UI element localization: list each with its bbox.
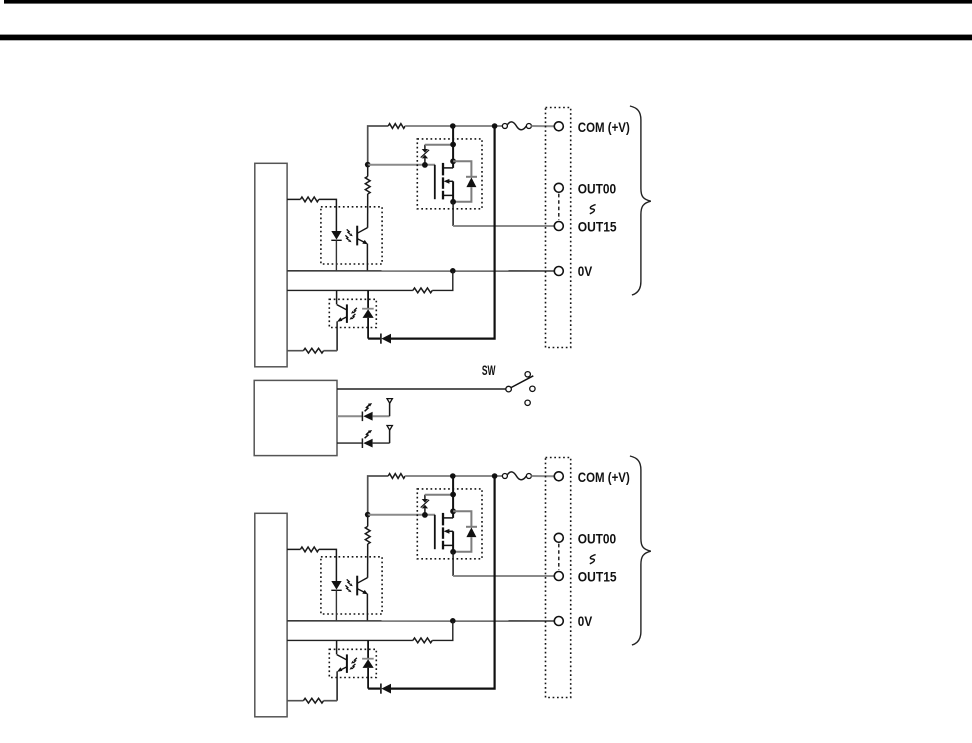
wire COM line to fuse <box>405 475 502 477</box>
junction node on COM line (drain branch) <box>450 123 456 129</box>
wire to OUT15 terminal <box>453 225 554 227</box>
wire 0V rail <box>287 270 554 272</box>
wire sense resistor up to 0V node <box>432 621 453 641</box>
MOSFET Q2 output transistor <box>435 476 453 552</box>
MOSFET module dashed box of Q2 <box>417 489 482 559</box>
wire flyback return up to COM junction <box>391 126 495 339</box>
LED of PC1 <box>331 231 341 271</box>
node zener anode junction <box>422 162 428 168</box>
wire emitter down to 0V rail <box>366 594 368 621</box>
diode D4 (flyback, bottom wire) <box>368 684 391 694</box>
fuse F1 (COM line) <box>502 124 507 129</box>
optocoupler PC1 dashed box <box>321 207 382 264</box>
curly brace output group <box>630 106 651 295</box>
optocoupler PC3 dashed box <box>321 557 382 614</box>
wire to OUT15 terminal <box>453 575 554 577</box>
resistor R3 (LED feed) <box>287 198 300 200</box>
resistor R7 (vertical, gate bleed) <box>367 515 369 527</box>
svg-text:SW: SW <box>482 363 496 378</box>
terminal COM(+V) <box>554 122 563 131</box>
resistor R2 (vertical, gate bleed) <box>367 165 369 177</box>
wire 0V rail <box>287 620 554 622</box>
svg-text:0V: 0V <box>578 614 593 629</box>
resistor R5 (emitter return) <box>287 350 303 352</box>
svg-text:COM (+V): COM (+V) <box>578 470 630 485</box>
terminal OUT15 <box>554 572 563 581</box>
node zener anode junction <box>422 512 428 518</box>
light arrows of PC2 <box>350 308 357 320</box>
phototransistor of PC4 <box>337 640 347 700</box>
optocoupler PC4 dashed box <box>329 649 376 677</box>
page top rule thin <box>4 0 972 4</box>
terminal OUT00 <box>554 533 563 542</box>
external device block <box>254 380 337 455</box>
label tilde range mark <box>590 555 596 564</box>
LED of PC2 <box>362 290 374 338</box>
wire resistor to LED anode <box>319 199 337 231</box>
wire zener top to drain <box>425 494 453 496</box>
LED indicator LED2 <box>337 426 392 449</box>
wire gate node to MOSFET gate <box>368 514 435 516</box>
svg-text:OUT00: OUT00 <box>578 182 617 197</box>
node drain-zener junction <box>450 492 456 498</box>
MOSFET Q1 output transistor <box>435 126 453 202</box>
wire dashed between OUT00 and OUT15 <box>558 544 560 570</box>
wire flyback return up to COM junction <box>391 476 495 689</box>
phototransistor of PC2 <box>337 290 347 350</box>
wire collector up to gate resistor <box>367 194 369 228</box>
node drain-zener junction <box>450 142 456 148</box>
wire fuse to COM terminal <box>531 475 554 477</box>
svg-text:COM (+V): COM (+V) <box>578 120 630 135</box>
wire dashed between OUT00 and OUT15 <box>558 194 560 220</box>
resistor R4 (sense wire) <box>287 289 413 291</box>
wire to switch SW <box>337 388 506 390</box>
diode D1 (body diode) <box>453 161 477 202</box>
node 0V junction <box>450 618 456 624</box>
phototransistor of PC3 <box>357 576 368 596</box>
LED indicator LED1 <box>337 399 392 422</box>
internal circuit block U1 <box>255 163 287 366</box>
resistor R1 (COM line) <box>388 124 405 129</box>
node source junction <box>450 549 456 555</box>
fuse F2 (COM line) <box>502 474 507 479</box>
svg-text:0V: 0V <box>578 264 593 279</box>
node gate junction dot <box>365 512 371 518</box>
light arrows of PC4 <box>350 658 357 670</box>
wire COM top-left corner <box>368 476 389 515</box>
light arrow LED2 <box>365 430 373 438</box>
label tilde range mark <box>590 205 596 214</box>
diode D3 (body diode) <box>453 511 477 552</box>
switch SW throw contact lower <box>525 400 530 405</box>
internal circuit block U2 <box>255 513 287 717</box>
node drain / body-diode junction <box>450 508 456 514</box>
junction node on COM line (flyback branch) <box>492 473 498 479</box>
light arrow LED1 <box>365 403 373 411</box>
wire source down <box>452 552 454 576</box>
page header rule thick <box>0 35 972 41</box>
wire collector up to gate resistor <box>367 544 369 578</box>
terminal block TB2 dashed outline <box>546 458 571 698</box>
wire source down <box>452 202 454 226</box>
switch SW pole contact <box>506 386 512 392</box>
phototransistor of PC1 <box>357 226 368 246</box>
light arrows of PC1 <box>345 229 352 242</box>
terminal block TB1 dashed outline <box>546 108 571 348</box>
wire COM line to fuse <box>405 125 502 127</box>
zener surge absorber ZD2 <box>421 495 429 515</box>
wire COM top-left corner <box>368 126 389 165</box>
junction node on COM line (flyback branch) <box>492 123 498 129</box>
terminal 0V <box>554 617 563 626</box>
LED of PC3 <box>331 581 341 621</box>
optocoupler PC2 dashed box <box>329 299 376 327</box>
LED of PC4 <box>362 640 374 688</box>
resistor R6 (COM line) <box>388 474 405 479</box>
light arrows of PC3 <box>345 579 352 592</box>
terminal OUT00 <box>554 183 563 192</box>
svg-text:OUT15: OUT15 <box>578 220 617 235</box>
zener surge absorber ZD1 <box>421 145 429 165</box>
wire zener top to drain <box>425 144 453 146</box>
wire gate node to MOSFET gate <box>368 164 435 166</box>
svg-text:OUT15: OUT15 <box>578 570 617 585</box>
node gate junction dot <box>365 162 371 168</box>
resistor R9 (sense wire) <box>287 639 413 641</box>
terminal 0V <box>554 267 563 276</box>
MOSFET module dashed box of Q1 <box>417 139 482 209</box>
switch SW lever <box>511 376 533 388</box>
wire emitter down to 0V rail <box>366 244 368 271</box>
terminal COM(+V) <box>554 472 563 481</box>
switch SW throw contact mid <box>530 386 535 391</box>
wire sense resistor up to 0V node <box>432 271 453 291</box>
diode D2 (flyback, bottom wire) <box>368 334 391 344</box>
curly brace output group <box>630 456 651 645</box>
junction node on COM line (drain branch) <box>450 473 456 479</box>
terminal OUT15 <box>554 222 563 231</box>
switch SW throw contact upper <box>525 372 530 377</box>
resistor R10 (emitter return) <box>287 700 303 702</box>
node 0V junction <box>450 268 456 274</box>
resistor R8 (LED feed) <box>287 548 300 550</box>
node drain / body-diode junction <box>450 158 456 164</box>
svg-text:OUT00: OUT00 <box>578 532 617 547</box>
wire resistor to LED anode <box>319 549 337 581</box>
wire fuse to COM terminal <box>531 125 554 127</box>
node source junction <box>450 199 456 205</box>
